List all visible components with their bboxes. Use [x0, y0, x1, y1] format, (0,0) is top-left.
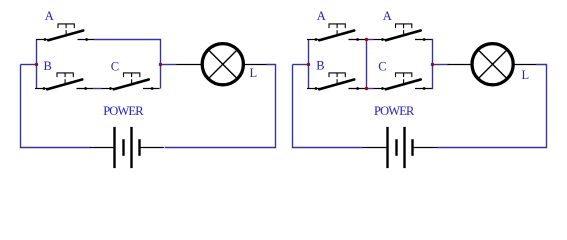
svg-text:C: C [111, 59, 119, 73]
svg-text:A: A [383, 9, 392, 23]
svg-text:A: A [317, 9, 326, 23]
svg-text:A: A [45, 9, 54, 23]
svg-text:POWER: POWER [374, 104, 415, 118]
svg-text:B: B [44, 59, 52, 73]
svg-text:L: L [250, 66, 258, 80]
svg-text:L: L [522, 68, 530, 82]
svg-text:B: B [316, 59, 324, 73]
svg-text:C: C [378, 60, 386, 74]
svg-text:POWER: POWER [103, 104, 144, 118]
